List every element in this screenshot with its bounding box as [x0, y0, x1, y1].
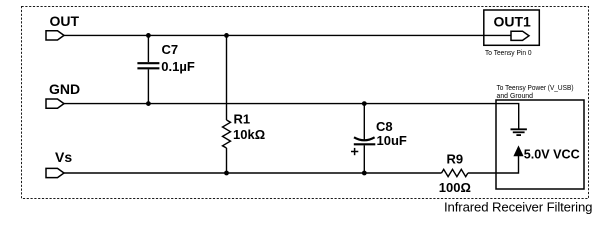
svg-text:5.0V VCC: 5.0V VCC [524, 146, 581, 161]
wire Vs rail right of R9 into power box [468, 156, 519, 173]
capacitor C7 [137, 35, 159, 103]
connector OUT1 pin [511, 31, 529, 40]
port OUT connector [46, 31, 64, 40]
junction C8 top [362, 101, 367, 106]
OUT1 box [484, 10, 540, 45]
svg-text:Infrared Receiver Filtering: Infrared Receiver Filtering [444, 199, 593, 214]
svg-text:10kΩ: 10kΩ [233, 127, 265, 142]
svg-text:GND: GND [49, 81, 80, 97]
junction R1 top [224, 33, 229, 38]
power box (Teensy power) [496, 100, 584, 189]
svg-text:R9: R9 [447, 151, 464, 166]
dashed sheet border [22, 7, 589, 199]
junction R1 bottom [224, 171, 229, 176]
ground symbol [511, 129, 527, 135]
junction C7 bottom [146, 101, 151, 106]
svg-text:100Ω: 100Ω [439, 180, 471, 195]
resistor R1 [223, 35, 231, 173]
svg-text:R1: R1 [234, 112, 251, 127]
capacitor C8 (polarized) [351, 104, 375, 173]
wire GND rail [64, 104, 519, 129]
junction C8 bottom [362, 171, 367, 176]
svg-text:C8: C8 [376, 119, 393, 134]
svg-text:10uF: 10uF [377, 133, 407, 148]
wire OUT rail [64, 34, 512, 36]
svg-text:OUT1: OUT1 [494, 14, 532, 30]
wire Vs rail left of R9 [64, 172, 442, 174]
junction C7 top [146, 33, 151, 38]
power symbol 5.0V VCC [514, 147, 523, 156]
svg-text:C7: C7 [162, 42, 179, 57]
svg-text:and Ground: and Ground [497, 91, 534, 100]
port Vs connector [46, 168, 64, 177]
svg-text:Vs: Vs [55, 149, 72, 165]
svg-text:To Teensy Pin 0: To Teensy Pin 0 [485, 48, 532, 57]
port GND connector [46, 99, 64, 108]
svg-text:OUT: OUT [50, 13, 80, 29]
resistor R9 [442, 169, 468, 176]
svg-text:0.1µF: 0.1µF [161, 59, 195, 74]
